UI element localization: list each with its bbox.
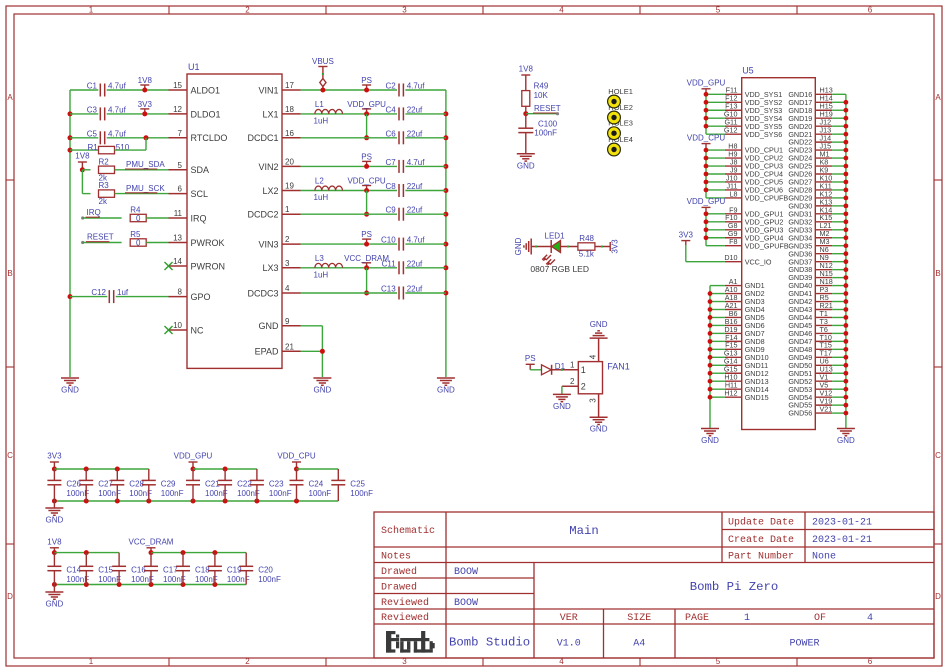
U5 pin F10 VDD_GPU2 — [725, 213, 784, 226]
svg-text:3V3: 3V3 — [47, 452, 62, 461]
junction dots on left rail — [68, 111, 73, 299]
U5 pin V12 GND54 — [788, 389, 846, 402]
ground GND under U1 — [313, 378, 331, 395]
svg-text:2: 2 — [245, 657, 250, 666]
U5 pin N18 GND40 — [788, 277, 846, 290]
svg-text:1uH: 1uH — [314, 117, 329, 126]
U1 pin 17 VIN1 — [258, 81, 300, 95]
wire VDD_CPU rail — [704, 148, 725, 198]
U5 pin G12 VDD_SYS6 — [724, 126, 782, 139]
svg-text:A4: A4 — [633, 638, 645, 649]
U1 pin 10 NC — [169, 321, 204, 335]
U5 pin J12 GND20 — [788, 118, 846, 131]
net label PMU_SCK — [125, 184, 165, 193]
power flag 3V3 at C3 — [138, 100, 153, 117]
svg-text:1: 1 — [744, 613, 750, 624]
wire PMU_SDA net — [115, 169, 169, 171]
svg-text:1: 1 — [89, 6, 94, 15]
svg-text:2: 2 — [581, 382, 586, 392]
wire R48 to 3V3 — [595, 246, 610, 248]
power flag VDD_CPU at cap bank — [277, 452, 315, 472]
U5 pin F12 VDD_SYS2 — [725, 94, 782, 107]
svg-text:12: 12 — [173, 105, 182, 114]
svg-text:L8: L8 — [730, 189, 738, 198]
svg-text:9: 9 — [285, 317, 290, 326]
wire VDD_SYS rail — [704, 92, 725, 134]
U5 pin D19 GND7 — [724, 325, 764, 338]
power flag 3V3 at U5 VCC_IO — [679, 230, 694, 245]
svg-text:10K: 10K — [534, 91, 549, 100]
svg-text:GND: GND — [837, 436, 855, 445]
U5 pin G13 GND10 — [724, 349, 769, 362]
capacitor C100 100nF — [518, 114, 557, 154]
svg-text:GND: GND — [437, 386, 455, 395]
svg-text:VDD_CPU: VDD_CPU — [347, 177, 385, 186]
svg-text:Part Number: Part Number — [728, 550, 794, 562]
svg-text:D: D — [7, 592, 13, 601]
U5 pin H15 GND18 — [788, 102, 846, 115]
ground GND right rail — [437, 378, 455, 395]
svg-text:PS: PS — [361, 152, 372, 161]
wire LX2 row — [301, 190, 446, 192]
svg-text:GND: GND — [61, 386, 79, 395]
capacitor C13 22uf — [381, 285, 423, 300]
U5 pin T1 GND44 — [788, 309, 846, 322]
svg-text:4.7uf: 4.7uf — [108, 105, 127, 114]
svg-text:A: A — [935, 93, 941, 102]
svg-text:PS: PS — [361, 76, 372, 85]
U5 pin K14 GND31 — [788, 205, 846, 218]
U5 pin H10 GND13 — [724, 373, 768, 386]
svg-text:C100: C100 — [538, 120, 558, 129]
wire LX1 row — [301, 113, 446, 115]
svg-text:F8: F8 — [729, 237, 737, 246]
capacitor C10 4.7uf — [381, 236, 425, 251]
no-connect X mark — [165, 326, 173, 334]
U5 pin J11 VDD_CPU6 — [725, 181, 783, 194]
svg-text:L2: L2 — [315, 177, 324, 186]
wire 3V3 cap bank top — [54, 467, 148, 472]
U1 pin 12 DLDO1 — [169, 105, 221, 119]
U5 pin J8 VDD_CPU3 — [725, 157, 783, 170]
svg-text:RTCLDO: RTCLDO — [191, 133, 228, 143]
svg-text:0807 RGB LED: 0807 RGB LED — [530, 264, 589, 274]
svg-text:C7: C7 — [385, 158, 396, 167]
U1 pin 6 SCL — [169, 185, 209, 199]
U5 pin M2 GND34 — [788, 229, 846, 242]
U5 pin A21 GND4 — [725, 301, 765, 314]
svg-text:VIN1: VIN1 — [258, 85, 278, 95]
net label RESET wire — [523, 104, 560, 116]
wire VDD_GPU to DCDC1 — [364, 114, 369, 140]
svg-text:C20: C20 — [258, 566, 273, 575]
U5 pin F8 VDD_GPUFB — [725, 237, 789, 250]
svg-text:Reviewed: Reviewed — [381, 612, 429, 624]
svg-text:C11: C11 — [382, 259, 397, 268]
U1 pin 13 PWROK — [169, 234, 225, 248]
svg-text:R2: R2 — [99, 157, 110, 166]
U5 pin H11 GND14 — [725, 381, 769, 394]
svg-text:3V3: 3V3 — [611, 239, 620, 254]
svg-text:LX2: LX2 — [262, 186, 278, 196]
power flag VCC_DRAM at cap bank B — [129, 537, 174, 555]
U1 pin 16 DCDC1 — [247, 129, 300, 143]
ground GND left of U5 — [701, 429, 719, 446]
svg-text:DCDC1: DCDC1 — [247, 133, 278, 143]
U5 pin T15 GND48 — [788, 341, 846, 354]
svg-text:VDD_GPU: VDD_GPU — [687, 197, 726, 206]
capacitor C16 100nF — [112, 553, 154, 585]
capacitor C14 100nF — [47, 553, 89, 585]
mounting hole labels HOLE1-4 — [608, 87, 633, 144]
svg-text:R3: R3 — [99, 181, 110, 190]
capacitor C6 22uf — [385, 129, 423, 144]
inductor L2 1uH — [314, 177, 343, 203]
svg-text:4.7uf: 4.7uf — [407, 82, 426, 91]
svg-text:VCC_DRAM: VCC_DRAM — [129, 537, 174, 546]
svg-text:VDD_GPU: VDD_GPU — [687, 79, 726, 88]
svg-text:17: 17 — [285, 81, 294, 90]
svg-text:U1: U1 — [188, 62, 200, 72]
svg-text:PMU_SDA: PMU_SDA — [126, 160, 165, 169]
svg-text:0: 0 — [136, 239, 141, 248]
svg-text:C2: C2 — [385, 82, 396, 91]
Bomb pixel logo — [386, 631, 435, 653]
svg-text:DCDC2: DCDC2 — [247, 210, 278, 220]
wire right GND rail — [445, 90, 447, 377]
svg-text:C4: C4 — [385, 105, 396, 114]
power flag VDD_GPU lower at U5 — [687, 197, 726, 214]
U5 pin G9 VDD_GPU4 — [725, 229, 784, 242]
inductor L3 1uH — [314, 254, 343, 280]
capacitor C5 4.7uf — [87, 129, 127, 144]
U5 pin F13 VDD_SYS3 — [725, 102, 782, 115]
svg-text:16: 16 — [285, 129, 294, 138]
power flag 3V3 rotated at LED1 — [610, 239, 619, 254]
svg-text:None: None — [812, 551, 836, 562]
U1 pin 8 GPO — [169, 288, 211, 302]
wire DCDC3 row — [301, 292, 446, 294]
FAN1 pin 3 — [589, 394, 599, 417]
svg-text:IRQ: IRQ — [87, 208, 101, 217]
no-connect X mark — [165, 262, 173, 270]
svg-text:Main: Main — [569, 524, 599, 538]
wire DLDO1 row — [70, 113, 169, 115]
svg-text:100nF: 100nF — [258, 575, 281, 584]
svg-text:EPAD: EPAD — [255, 347, 279, 357]
svg-text:Drawed: Drawed — [381, 581, 417, 593]
svg-text:RESET: RESET — [534, 104, 561, 113]
U5 pin J13 GND21 — [788, 126, 846, 139]
svg-text:1V8: 1V8 — [519, 65, 534, 74]
resistor R2 2k — [99, 157, 115, 182]
U5 pin H9 VDD_CPU2 — [725, 149, 783, 162]
svg-text:1: 1 — [285, 205, 290, 214]
svg-text:Schematic: Schematic — [381, 525, 435, 537]
svg-text:C21: C21 — [205, 480, 220, 489]
U1 pin 21 EPAD — [255, 342, 301, 356]
svg-text:C6: C6 — [385, 129, 396, 138]
U5 pin V5 GND53 — [788, 381, 846, 394]
capacitor C17 100nF — [144, 553, 186, 585]
svg-text:GND: GND — [514, 237, 523, 255]
diode D1 — [542, 362, 566, 375]
power flag VDD_CPU at L2 — [347, 177, 385, 194]
U5 pin J15 GND23 — [788, 141, 846, 154]
U5 pin N12 GND38 — [788, 261, 846, 274]
svg-text:L3: L3 — [315, 254, 324, 263]
svg-text:Create Date: Create Date — [728, 535, 794, 546]
U1 pin 3 LX3 — [262, 259, 300, 273]
svg-text:VDD_GPU: VDD_GPU — [174, 452, 213, 461]
svg-text:BOOW: BOOW — [454, 598, 478, 609]
svg-text:22uf: 22uf — [407, 206, 423, 215]
U5 pin F9 VDD_GPU1 — [725, 205, 784, 218]
FAN1 pin 4 — [589, 338, 599, 362]
capacitor C2 4.7uf — [385, 82, 425, 97]
svg-text:V1.0: V1.0 — [557, 638, 581, 649]
power flag PS at VIN3 — [361, 230, 372, 247]
wire RTCLDO row — [70, 135, 169, 140]
wire PS to D1 — [530, 369, 541, 371]
svg-text:4: 4 — [285, 284, 290, 293]
title block — [374, 512, 934, 658]
wire 3V3 to VCC_IO pin — [686, 245, 725, 262]
svg-text:GND15: GND15 — [745, 393, 769, 402]
svg-text:Bomb Studio: Bomb Studio — [449, 635, 530, 649]
svg-text:C13: C13 — [381, 285, 396, 294]
U5 pin V21 GND56 — [788, 405, 846, 418]
svg-text:BOOW: BOOW — [454, 567, 478, 578]
svg-text:4.7uf: 4.7uf — [108, 82, 127, 91]
svg-text:GND: GND — [46, 516, 64, 525]
op-amp U1 PMIC box — [187, 62, 282, 368]
svg-text:C24: C24 — [309, 480, 324, 489]
svg-text:C: C — [7, 451, 13, 460]
U5 pin N6 GND36 — [788, 245, 846, 258]
U5 pin U6 GND50 — [788, 357, 846, 370]
power flag VCC_DRAM at L3 — [344, 254, 389, 271]
svg-text:NC: NC — [191, 325, 204, 335]
wire DCDC1 row — [301, 137, 446, 139]
svg-text:VER: VER — [560, 613, 578, 624]
svg-text:21: 21 — [285, 342, 294, 351]
svg-text:VDD_CPU: VDD_CPU — [687, 133, 725, 142]
U5 pin U13 GND51 — [788, 365, 846, 378]
svg-text:22uf: 22uf — [407, 105, 423, 114]
svg-text:PAGE: PAGE — [685, 613, 709, 624]
U5 pin A18 GND3 — [725, 293, 765, 306]
svg-text:GND: GND — [553, 402, 571, 411]
U5 pin L8 VDD_CPUFB — [725, 189, 789, 202]
resistor R4 0 — [130, 206, 146, 224]
svg-text:6: 6 — [868, 6, 873, 15]
wire VIN1 row — [301, 89, 446, 91]
U1 pin 7 RTCLDO — [169, 129, 228, 143]
capacitor C22 100nF — [218, 469, 260, 501]
svg-text:11: 11 — [174, 209, 183, 218]
svg-text:4: 4 — [867, 613, 873, 624]
capacitor C15 100nF — [79, 553, 121, 585]
junction dots right rail — [443, 111, 448, 295]
svg-text:Drawed: Drawed — [381, 566, 417, 578]
junction dots U5 right rail — [844, 100, 849, 416]
svg-text:GND56: GND56 — [788, 409, 812, 418]
svg-text:1: 1 — [89, 657, 94, 666]
U5 pin M3 GND35 — [788, 237, 846, 250]
svg-text:19: 19 — [285, 182, 294, 191]
svg-text:3: 3 — [285, 259, 290, 268]
svg-text:PWRON: PWRON — [191, 261, 226, 271]
svg-text:R49: R49 — [534, 81, 549, 90]
svg-text:Bomb Pi Zero: Bomb Pi Zero — [690, 580, 779, 594]
U5 pin K11 GND28 — [788, 181, 846, 194]
capacitor C27 100nF — [79, 469, 121, 501]
svg-text:100nF: 100nF — [161, 489, 184, 498]
U5 pin N15 GND39 — [788, 269, 846, 282]
U5 pin F14 GND8 — [725, 333, 765, 346]
capacitor C23 100nF — [250, 469, 292, 501]
svg-text:6: 6 — [178, 185, 183, 194]
wire R5 to PWROK pin — [146, 242, 168, 244]
svg-text:Update Date: Update Date — [728, 517, 794, 529]
power flag VDD_GPU at L1 — [347, 100, 386, 117]
svg-text:VDD_CPUFB: VDD_CPUFB — [745, 194, 789, 203]
svg-text:G12: G12 — [724, 126, 738, 135]
svg-text:C1: C1 — [87, 82, 98, 91]
capacitor C3 4.7uf — [87, 105, 127, 120]
svg-text:0: 0 — [136, 214, 141, 223]
ground GND left rail — [61, 378, 79, 395]
svg-text:4.7uf: 4.7uf — [407, 236, 426, 245]
svg-text:100nF: 100nF — [205, 489, 228, 498]
U5 pin R21 GND43 — [788, 301, 846, 314]
svg-text:2: 2 — [285, 235, 290, 244]
svg-text:GND: GND — [701, 436, 719, 445]
svg-text:5.1k: 5.1k — [579, 250, 595, 259]
wire VDD_GPU cap bank top — [193, 467, 257, 472]
U5 pin K9 GND26 — [788, 165, 846, 178]
capacitor C1 4.7uf — [87, 82, 127, 97]
svg-text:VCC_IO: VCC_IO — [745, 257, 772, 266]
U5 pin G15 GND12 — [724, 365, 769, 378]
ground GND cap bank A — [45, 501, 63, 525]
svg-text:13: 13 — [173, 234, 182, 243]
wire VIN2 row — [301, 165, 446, 167]
U5 pin T6 GND46 — [788, 325, 846, 338]
connector FAN1 box — [578, 362, 630, 394]
svg-text:20: 20 — [285, 157, 294, 166]
svg-text:100nF: 100nF — [98, 575, 121, 584]
capacitor C28 100nF — [110, 469, 152, 501]
U5 pin D10 VCC_IO — [724, 253, 772, 266]
power flag PS at D1 — [525, 354, 536, 370]
svg-text:POWER: POWER — [789, 638, 819, 649]
wire VIN3 row — [301, 243, 446, 245]
wire VCC_DRAM cap bank top — [151, 550, 246, 555]
U5 pin P3 GND41 — [788, 285, 846, 298]
power flag PS at VIN1 — [361, 76, 372, 93]
svg-text:2023-01-21: 2023-01-21 — [812, 518, 872, 529]
svg-text:C17: C17 — [163, 566, 178, 575]
U5 pin K12 GND29 — [788, 189, 846, 202]
capacitor C12 1uf — [91, 288, 129, 303]
wire ALDO1 row — [70, 89, 169, 91]
capacitor C21 100nF — [186, 469, 228, 501]
U5 pin G10 VDD_SYS4 — [724, 110, 782, 123]
U5 pin G14 GND11 — [724, 357, 768, 370]
svg-text:GND: GND — [46, 600, 64, 609]
wire FAN1 pin2 to GND — [561, 386, 563, 394]
svg-text:C10: C10 — [381, 236, 396, 245]
svg-text:GND: GND — [590, 425, 608, 434]
wire GND to LED1 — [531, 246, 551, 248]
svg-text:10: 10 — [173, 321, 182, 330]
U5 pin T17 GND49 — [788, 349, 846, 362]
svg-text:8: 8 — [178, 288, 183, 297]
svg-text:GND: GND — [517, 161, 535, 170]
U5 pin B6 GND5 — [725, 309, 765, 322]
capacitor C25 100nF — [331, 469, 373, 501]
svg-text:R48: R48 — [579, 234, 594, 243]
capacitor C18 100nF — [176, 553, 218, 585]
resistor R1 510 — [70, 138, 146, 154]
svg-text:PS: PS — [361, 230, 372, 239]
U5 pin H12 GND15 — [724, 389, 768, 402]
svg-text:D: D — [935, 592, 941, 601]
svg-text:C3: C3 — [87, 105, 98, 114]
svg-text:H12: H12 — [724, 389, 737, 398]
resistor R3 2k — [99, 181, 115, 206]
FAN1 pin 1 — [552, 360, 586, 375]
svg-text:VDD_GPUFB: VDD_GPUFB — [745, 241, 789, 250]
svg-text:PS: PS — [525, 354, 536, 363]
power flag VBUS — [312, 57, 334, 93]
wire 1V8 to R2 R3 — [82, 170, 90, 194]
svg-text:100nF: 100nF — [534, 129, 557, 138]
U5 pin T3 GND45 — [788, 317, 846, 330]
U1 pin 15 ALDO1 — [169, 81, 221, 95]
capacitor C20 100nF — [239, 553, 281, 585]
capacitor C19 100nF — [208, 553, 250, 585]
wire VDD_CPU to DCDC2 — [364, 191, 369, 217]
capacitor C4 22uf — [385, 105, 423, 120]
power flag 3V3 at cap bank — [47, 452, 62, 472]
ground GND cap bank B — [45, 585, 63, 609]
U5 pin K15 GND32 — [788, 213, 846, 226]
svg-text:18: 18 — [285, 105, 294, 114]
svg-text:L1: L1 — [315, 100, 324, 109]
svg-text:SDA: SDA — [191, 165, 210, 175]
wire U5 right GND rail — [845, 94, 847, 428]
power flag VDD_GPU at cap bank — [174, 452, 213, 472]
U5 pin F11 VDD_SYS1 — [725, 86, 782, 99]
svg-text:1: 1 — [570, 360, 575, 369]
LED LED1 0807 RGB — [530, 232, 589, 274]
ground GND right of U5 — [837, 429, 855, 446]
svg-text:14: 14 — [173, 257, 182, 266]
svg-text:FAN1: FAN1 — [607, 362, 630, 372]
U1 pin 20 VIN2 — [258, 157, 300, 171]
mounting hole HOLE1 — [608, 95, 621, 108]
svg-text:PWROK: PWROK — [191, 238, 225, 248]
power flag VDD_GPU top of U5 — [687, 79, 726, 95]
svg-text:C25: C25 — [350, 480, 365, 489]
U5 pin V19 GND55 — [788, 397, 846, 410]
wire GND EPAD net — [301, 326, 325, 377]
U1 pin 2 VIN3 — [258, 235, 300, 249]
U1 pin 18 LX1 — [262, 105, 300, 119]
